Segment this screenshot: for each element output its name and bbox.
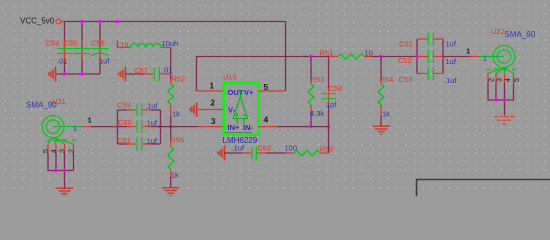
svg-text:R53: R53 bbox=[311, 75, 325, 84]
ground stack symbol R55 bbox=[162, 188, 180, 196]
junction dot rail-C56 bbox=[98, 20, 101, 23]
svg-text:5: 5 bbox=[264, 82, 269, 92]
resistor R52 bbox=[168, 80, 174, 117]
svg-text:1pf: 1pf bbox=[326, 100, 337, 109]
svg-text:1uf: 1uf bbox=[99, 57, 110, 66]
svg-text:4: 4 bbox=[503, 68, 509, 71]
junction dot bottom rail C55 bbox=[80, 72, 83, 75]
svg-text:1k: 1k bbox=[382, 110, 390, 119]
ground pins of U21 bbox=[48, 144, 74, 151]
inductor L19 bbox=[118, 40, 171, 48]
pin 2 of opamp bbox=[197, 109, 224, 111]
svg-text:IN-: IN- bbox=[243, 123, 254, 132]
svg-text:IN+: IN+ bbox=[228, 123, 241, 132]
op-amp U15 inner body outline bbox=[225, 131, 253, 133]
capacitor C58 bbox=[322, 57, 337, 127]
capacitor C54 bbox=[57, 40, 73, 62]
ground fade symbol near C62 bbox=[218, 146, 225, 161]
ground fade symbol near C57 bbox=[119, 67, 126, 82]
pin numbers rotated of U21 bbox=[43, 149, 76, 153]
junction dot bottom rail C54 bbox=[63, 72, 66, 75]
svg-text:SMA_90: SMA_90 bbox=[505, 30, 536, 39]
svg-text:3: 3 bbox=[211, 117, 216, 126]
wire bottom rail of decoupling caps bbox=[56, 73, 100, 75]
svg-text:L19: L19 bbox=[116, 41, 129, 50]
svg-text:C57: C57 bbox=[134, 66, 148, 75]
svg-text:1: 1 bbox=[210, 82, 215, 91]
svg-text:1k: 1k bbox=[171, 171, 179, 180]
output cap block left bracket bbox=[416, 39, 418, 74]
connector U22 SMA_90 bbox=[479, 46, 515, 74]
svg-text:4: 4 bbox=[51, 149, 58, 153]
pin numbers rotated of U22 bbox=[489, 78, 522, 82]
wire feedback loop left bbox=[197, 57, 329, 92]
capacitor C57 bbox=[144, 67, 171, 81]
svg-text:.1uf: .1uf bbox=[145, 137, 158, 146]
connector U21 SMA_90 bbox=[42, 116, 81, 144]
capacitor C53 bbox=[417, 67, 443, 80]
svg-text:5: 5 bbox=[514, 78, 521, 82]
capacitor C62 bbox=[242, 146, 266, 161]
junction dot C52 left bbox=[415, 55, 418, 58]
op-amp triangle symbol bbox=[233, 91, 248, 125]
junction dot U21 pin3 bus bbox=[63, 169, 66, 172]
capacitor C56 polarized bbox=[91, 40, 109, 62]
svg-text:C53: C53 bbox=[399, 75, 413, 84]
svg-text:U15: U15 bbox=[223, 73, 237, 82]
junction dot U21 pin4 bus bbox=[54, 169, 57, 172]
wire IN+ node to opamp pin3 bbox=[161, 126, 198, 128]
wire R56 to feedback node bbox=[328, 127, 330, 153]
junction dot C60 left bbox=[116, 125, 119, 128]
svg-text:R54: R54 bbox=[380, 75, 394, 84]
wire output to U22 bbox=[443, 56, 470, 58]
ground fade symbol near C54 bbox=[49, 67, 56, 82]
svg-text:R52: R52 bbox=[172, 74, 186, 83]
pin 4 of opamp bbox=[259, 126, 329, 128]
svg-text:C52: C52 bbox=[398, 56, 412, 65]
wire VCC rail bbox=[65, 22, 286, 92]
junction dot C58 bottom bbox=[327, 125, 330, 128]
wire R52 to IN+ node bbox=[170, 117, 172, 127]
svg-text:SMA_90: SMA_90 bbox=[26, 101, 57, 110]
wire C57 ground side bbox=[126, 73, 144, 75]
svg-text:.01: .01 bbox=[162, 66, 172, 75]
svg-text:3: 3 bbox=[497, 78, 504, 82]
svg-text:R55: R55 bbox=[170, 136, 184, 145]
resistor R55 bbox=[168, 127, 174, 188]
svg-text:5: 5 bbox=[512, 68, 518, 71]
ground bus wires of U21 bbox=[48, 151, 74, 188]
resistor R53 bbox=[308, 57, 314, 127]
capacitor C51 bbox=[417, 33, 443, 46]
capacitor C59 bbox=[118, 104, 161, 117]
resistor R51 bbox=[329, 54, 372, 60]
net label text under U22 bbox=[494, 116, 515, 125]
svg-text:1uf: 1uf bbox=[446, 40, 457, 49]
svg-text:2: 2 bbox=[72, 139, 78, 142]
svg-text:4: 4 bbox=[55, 139, 61, 142]
svg-text:3: 3 bbox=[63, 139, 69, 142]
junction dot IN+ node bbox=[169, 125, 172, 128]
svg-text:4: 4 bbox=[264, 115, 269, 125]
svg-text:4: 4 bbox=[505, 78, 512, 82]
svg-text:VCC_5v0: VCC_5v0 bbox=[20, 17, 55, 26]
svg-text:.1uf: .1uf bbox=[145, 102, 158, 111]
svg-text:R51: R51 bbox=[320, 49, 334, 58]
svg-text:2: 2 bbox=[489, 78, 496, 82]
svg-text:C54: C54 bbox=[46, 39, 60, 48]
svg-text:C58: C58 bbox=[329, 84, 343, 93]
svg-text:3: 3 bbox=[495, 68, 501, 71]
power port circle bbox=[56, 19, 64, 24]
svg-text:4.3k: 4.3k bbox=[310, 109, 324, 118]
pin 3 of opamp bbox=[197, 126, 224, 128]
pin 1 of opamp bbox=[197, 90, 224, 92]
svg-text:1: 1 bbox=[73, 126, 77, 133]
svg-text:2: 2 bbox=[69, 149, 76, 153]
junction dot C60 right bbox=[159, 125, 162, 128]
junction dot R54 top bbox=[379, 55, 382, 58]
output cap block right bracket bbox=[442, 39, 444, 74]
svg-text:C51: C51 bbox=[399, 40, 413, 49]
resistor R56 bbox=[285, 150, 329, 156]
junction dot rail-L19 bbox=[116, 20, 119, 23]
svg-text:.1uf: .1uf bbox=[145, 119, 158, 128]
svg-text:1uf: 1uf bbox=[446, 57, 457, 66]
svg-text:2: 2 bbox=[211, 99, 216, 108]
svg-text:5: 5 bbox=[43, 149, 50, 153]
svg-text:U22: U22 bbox=[491, 27, 505, 36]
svg-text:V+: V+ bbox=[244, 88, 254, 97]
ground stack symbol U21 bbox=[56, 188, 74, 196]
capacitor C55 bbox=[74, 40, 90, 62]
wire R51 to output node bbox=[371, 56, 417, 58]
capacitor C61 bbox=[118, 138, 161, 151]
ground bus wires of U22 bbox=[488, 83, 514, 116]
junction dot U22 pin4 bus bbox=[503, 98, 506, 101]
svg-text:C62: C62 bbox=[258, 144, 272, 153]
junction dot R53 bottom bbox=[309, 125, 312, 128]
wire C56 branch bbox=[99, 22, 101, 75]
wire C55 branch bbox=[81, 22, 83, 75]
junction dot U22 pin3 bus bbox=[494, 98, 497, 101]
svg-text:.1uf: .1uf bbox=[444, 76, 457, 85]
junction dot rail-C55 bbox=[80, 20, 83, 23]
title block border bottom right bbox=[417, 180, 550, 197]
wire C62 ground side bbox=[224, 152, 242, 154]
ground pins of U22 bbox=[488, 74, 514, 84]
svg-text:2: 2 bbox=[487, 68, 493, 71]
wire C54 branch bbox=[64, 22, 66, 75]
capacitor C60 bbox=[118, 120, 161, 133]
capacitor block right bracket wire bbox=[160, 110, 162, 144]
ground fade symbol at opamp pin2 bbox=[190, 102, 197, 117]
wire L19 output vertical bbox=[170, 48, 172, 80]
svg-text:.1uf: .1uf bbox=[232, 144, 245, 153]
pin 1 wire of U22 bbox=[470, 56, 479, 58]
svg-text:C61: C61 bbox=[117, 136, 131, 145]
pin 1 wire of U21 bbox=[81, 126, 118, 128]
op-amp U15 selection box bbox=[224, 83, 259, 135]
capacitor block C59 C60 C61 left bracket wire bbox=[117, 110, 119, 144]
pin names green of U22 bbox=[487, 68, 519, 71]
svg-text:3: 3 bbox=[60, 149, 67, 153]
ground stack symbol R54 bbox=[372, 126, 390, 134]
svg-text:C60: C60 bbox=[118, 118, 132, 127]
svg-text:C59: C59 bbox=[117, 101, 131, 110]
wire C62 to R56 bbox=[266, 152, 285, 154]
svg-text:1: 1 bbox=[483, 56, 487, 63]
svg-text:1: 1 bbox=[88, 116, 92, 125]
svg-text:.01: .01 bbox=[57, 57, 67, 66]
junction dot R53 top bbox=[309, 55, 312, 58]
svg-text:1k: 1k bbox=[172, 110, 180, 119]
svg-text:OUT: OUT bbox=[228, 88, 244, 97]
svg-text:5: 5 bbox=[47, 139, 53, 142]
svg-text:C55: C55 bbox=[64, 39, 78, 48]
svg-text:1: 1 bbox=[466, 47, 470, 56]
resistor R54 bbox=[378, 57, 384, 126]
pin 5 of opamp bbox=[259, 90, 286, 92]
svg-text:R56: R56 bbox=[320, 145, 334, 154]
pin names 5432 green of U21 bbox=[47, 139, 79, 142]
svg-text:10uh: 10uh bbox=[162, 39, 179, 48]
svg-text:C56: C56 bbox=[91, 39, 105, 48]
capacitor C52 bbox=[417, 50, 443, 63]
junction dot C52 right bbox=[441, 55, 444, 58]
